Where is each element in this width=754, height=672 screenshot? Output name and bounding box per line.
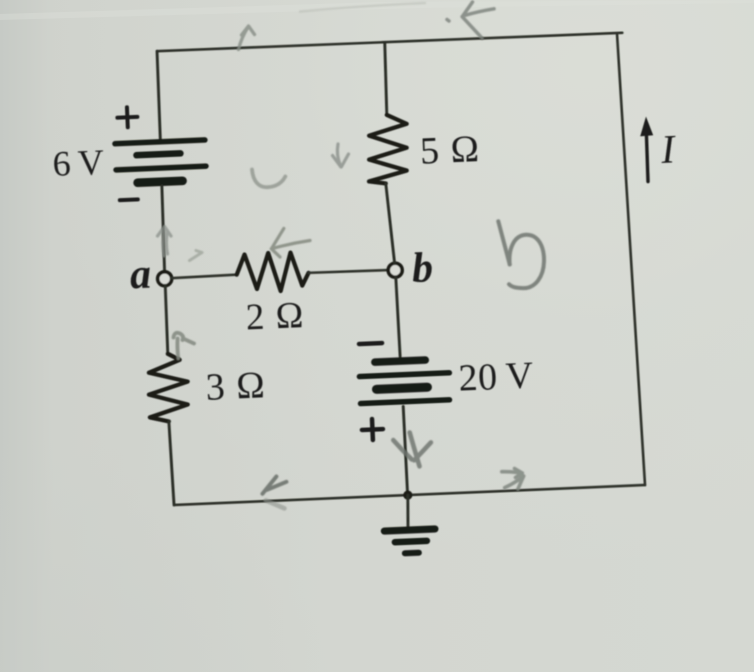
current arrow I [639,116,655,181]
wire node a to resistor R2 [171,275,236,279]
svg-text:20 V: 20 V [458,355,535,400]
wire bottom [174,485,645,505]
pencil arrow left on top wire [447,2,494,38]
wire top [157,32,622,53]
ground stem [407,495,410,527]
pencil small arrow right of node a [190,251,203,261]
label + of V1 [117,107,138,128]
svg-text:3 Ω: 3 Ω [205,364,268,409]
pencil marks (hand annotations) [158,2,545,508]
pencil down arrow left of R1 [333,144,349,167]
resistor R1 5ohm zigzag [366,114,409,184]
pencil up arrow above node a [158,227,172,257]
wire right [617,33,645,486]
wire battery V1 to node a [161,186,166,272]
resistor R2 2ohm zigzag [236,251,309,292]
node b [388,263,403,278]
pencil down arrow below battery V2 [393,433,431,467]
pencil arrow up-right on top wire [239,26,255,50]
svg-text:2 Ω: 2 Ω [245,295,306,338]
wire top to resistor R1 [384,42,388,114]
label - of V1 [120,197,138,202]
wire resistor R3 to bottom [169,421,174,505]
wire battery V2 to bottom junction [403,406,407,495]
wire left top (corner to battery V1) [157,51,161,139]
pencil smile arc mid-left [252,170,285,188]
ground bars [384,529,435,554]
junction dot [403,490,413,500]
label + of V2 [362,419,384,441]
pencil up arrow above R3 [174,333,195,359]
wire resistor R1 to node b [386,183,395,263]
svg-text:b: b [411,245,434,292]
svg-text:5 Ω: 5 Ω [419,128,482,173]
wire resistor R2 to node b [309,269,389,273]
svg-text:6 V: 6 V [52,142,105,184]
pencil left-down arrow on bottom wire [263,477,287,509]
pencil loop arrow (KVL) [498,221,544,288]
pencil right arrow on bottom wire near ground [502,469,524,490]
wire node a to resistor R3 [165,286,168,354]
node a [157,271,172,286]
pencil faint streak top [300,3,425,12]
battery V1 6V plates [115,140,207,184]
battery V2 20V plates [359,359,451,404]
pencil left arrow above R2 [271,228,310,257]
svg-text:a: a [129,251,152,298]
resistor R3 3ohm zigzag [147,353,189,422]
wire node b to battery V2 [396,277,400,357]
label - of V2 [359,341,382,346]
